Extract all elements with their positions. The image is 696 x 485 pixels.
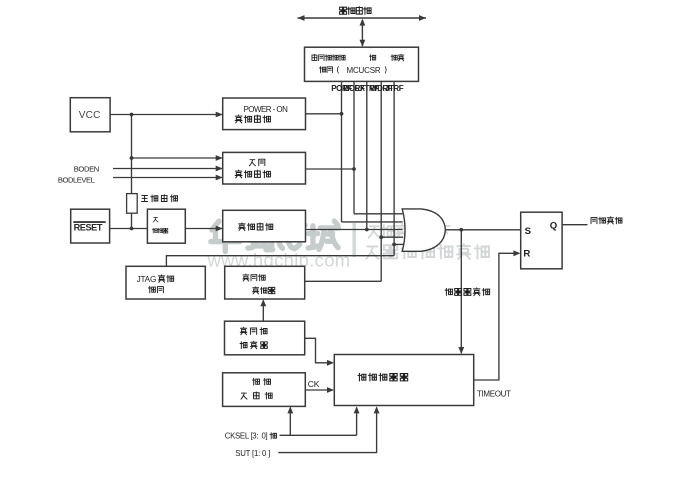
svg-text:TIMEOUT: TIMEOUT <box>477 390 511 399</box>
svg-text:JTAG: JTAG <box>137 275 157 284</box>
svg-text:R: R <box>523 248 530 259</box>
svg-text:S: S <box>525 226 532 237</box>
svg-text:VCC: VCC <box>79 110 101 121</box>
svg-text:BODEN: BODEN <box>74 164 99 173</box>
svg-text:BODLEVEL: BODLEVEL <box>58 175 95 184</box>
svg-text:0]: 0] <box>262 432 268 441</box>
svg-text:CKSEL [3: CKSEL [3 <box>225 432 257 441</box>
svg-text:RESET: RESET <box>74 223 103 233</box>
svg-text:POWER - ON: POWER - ON <box>244 105 289 114</box>
svg-text:CK: CK <box>308 379 320 389</box>
svg-text:SUT [1: 0 ]: SUT [1: 0 ] <box>235 449 270 458</box>
svg-text:Q: Q <box>550 221 558 232</box>
svg-text:MCUCSR: MCUCSR <box>347 66 381 75</box>
svg-text:JTRF: JTRF <box>385 84 404 93</box>
svg-text::: : <box>257 432 259 441</box>
